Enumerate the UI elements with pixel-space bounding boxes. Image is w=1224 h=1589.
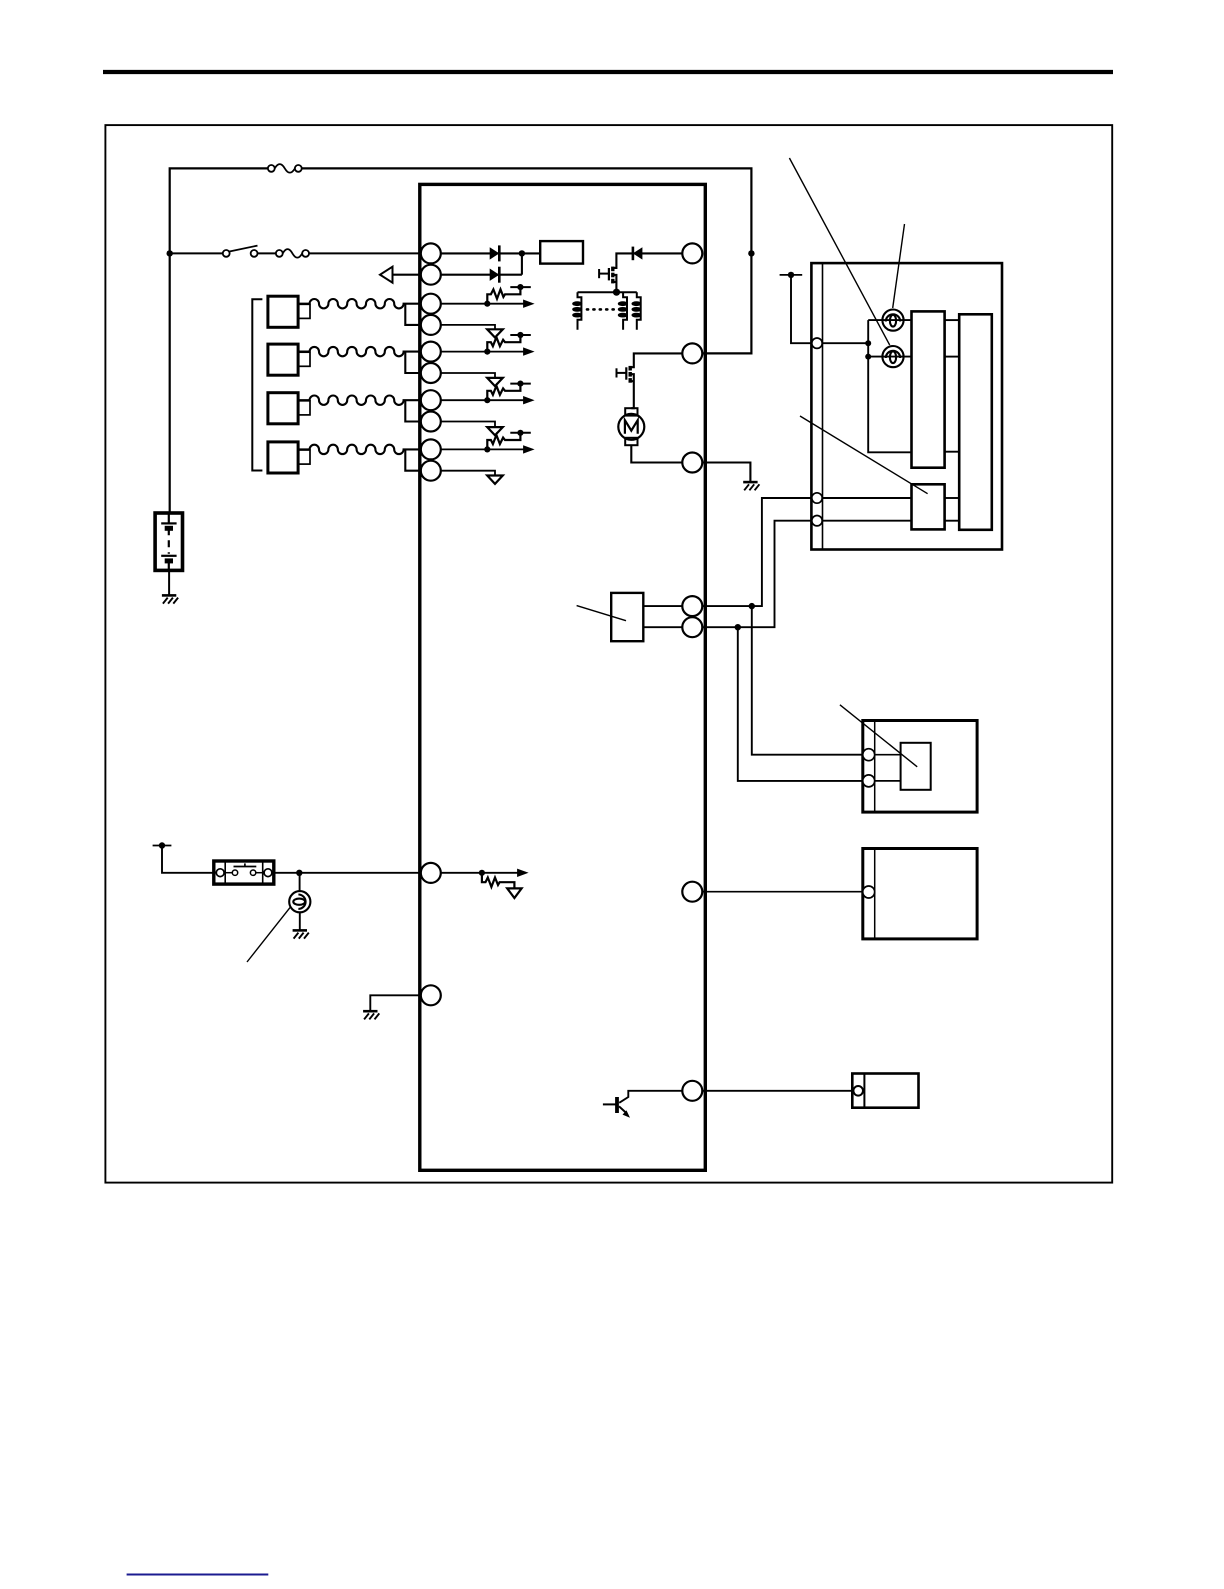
MOSFET Q2 bbox=[617, 366, 631, 383]
wire: to bulb 2 bbox=[868, 356, 911, 358]
leader: oil pressure switch bbox=[247, 907, 290, 962]
wire: switch to fuse F2 bbox=[258, 252, 276, 254]
wire: motor to return pin bbox=[631, 445, 682, 462]
ground: battery bbox=[162, 595, 178, 603]
ignition coil T2 bbox=[268, 344, 421, 375]
node: oil lamp tee bbox=[296, 870, 302, 876]
fuse F2 bbox=[276, 249, 309, 258]
resistor network: coil 1 input bbox=[441, 284, 535, 308]
transistor Q3 (open collector) bbox=[603, 1091, 682, 1118]
pin: ECM coil 3 return bbox=[421, 412, 441, 432]
wire: tee to oil pressure switch bbox=[299, 873, 301, 891]
pin: ECM ground pin bbox=[421, 985, 441, 1005]
node: bulb splits bbox=[865, 340, 871, 359]
wire: fuse F2 to ECM IG pin bbox=[309, 252, 421, 254]
ignition coil T3 bbox=[268, 393, 421, 424]
zener/resistor network: coil 4 input bbox=[441, 422, 535, 454]
wire: out2 pin to meter bbox=[702, 521, 812, 628]
wire: out1 pin to meter and speed sensor bbox=[702, 498, 812, 606]
leader: speed sensor bbox=[840, 705, 917, 767]
ECM box U1 bbox=[420, 184, 706, 1170]
ignition coil T4 bbox=[268, 442, 421, 473]
wire: return pin to ground bbox=[702, 463, 750, 482]
speed sensor element bbox=[875, 743, 931, 790]
ignition switch SW1 bbox=[223, 246, 258, 257]
wire: speed signal pin to module bbox=[702, 891, 863, 893]
power tap node (meter) bbox=[780, 272, 803, 278]
transformer L1 (noise filter) bbox=[573, 292, 641, 330]
pin: ECM tach output bbox=[421, 265, 441, 285]
pin: ECM sensor out 1 bbox=[682, 596, 702, 616]
pin: ECM fan/motor supply bbox=[682, 343, 702, 363]
diagram outer frame bbox=[105, 125, 1112, 1183]
pin: ECM coil 3 signal bbox=[421, 390, 441, 410]
speedometer module bbox=[912, 484, 945, 529]
footer link rule bbox=[127, 1574, 269, 1576]
ground: oil pressure switch bbox=[293, 930, 309, 938]
wire: battery to ground bbox=[168, 570, 170, 595]
leader: bulb callout 2 bbox=[893, 224, 905, 308]
battery BAT bbox=[155, 513, 182, 570]
arrow: tach output (left) bbox=[380, 267, 421, 283]
MOSFET Q1 bbox=[599, 267, 613, 284]
power tap node bbox=[153, 842, 172, 848]
pin: ECM coil 4 return bbox=[421, 461, 441, 481]
wire: tap to fusible link bbox=[162, 846, 214, 873]
wire: relay pin into FET bbox=[633, 252, 682, 254]
fuse F1 bbox=[268, 164, 302, 173]
pin: ECM coil 1 return bbox=[421, 315, 441, 335]
wire: meter power to bulbs bbox=[822, 342, 868, 344]
pin: ECM coil 1 signal bbox=[421, 294, 441, 314]
wire: IG pin to regulator bbox=[441, 252, 540, 254]
wire: to bulb 1 bbox=[868, 319, 911, 321]
leader: speedometer callout bbox=[800, 416, 928, 494]
pin: ECM coil 2 signal bbox=[421, 342, 441, 362]
wire: ECM ground pin bbox=[370, 995, 421, 1010]
meter circuit board bbox=[959, 314, 992, 530]
regulator box bbox=[540, 241, 583, 264]
pin: ECM speed signal bbox=[682, 882, 702, 902]
pin: meter power bbox=[812, 338, 822, 348]
wire: fusible link to ECM oil pin bbox=[274, 872, 421, 874]
node: transformer top bbox=[613, 289, 620, 296]
bulb 2 (warning lamp) bbox=[882, 346, 903, 367]
zener/resistor network: coil 2 input bbox=[441, 325, 535, 356]
node: diode OR junction bbox=[519, 250, 525, 256]
vehicle speed sensor box bbox=[863, 721, 977, 813]
page top rule bbox=[103, 70, 1113, 74]
ECU-less box (blank module) bbox=[863, 849, 977, 939]
ignition coil T1 bbox=[268, 296, 421, 327]
zener/resistor network: coil 3 input bbox=[441, 373, 535, 404]
wire: crank pin to sensor box bbox=[702, 1090, 852, 1092]
pin: ECM IG input bbox=[421, 243, 441, 263]
wires: meter pins to speedometer bbox=[822, 498, 959, 521]
crank sensor box bbox=[852, 1074, 918, 1108]
meter gauge module 1 bbox=[912, 311, 945, 467]
leader: bulb callout 1 bbox=[789, 158, 889, 345]
pin: ECM coil 4 signal bbox=[421, 439, 441, 459]
wires: gauge to board bbox=[945, 320, 960, 452]
diode D3 (points left) bbox=[633, 247, 643, 261]
zener: last coil return clamp bbox=[441, 471, 503, 484]
pin: ECM oil pressure input bbox=[421, 863, 441, 883]
fusible link FL1 bbox=[214, 861, 274, 884]
wire: fuse F1 to main relay vertical bbox=[302, 168, 752, 353]
wire: battery feed to fusible link (top horizontal) bbox=[170, 168, 272, 513]
leader: sensor unit bbox=[577, 606, 626, 621]
wire: out2 down to speed sensor bbox=[738, 627, 863, 781]
wire: diode to FET drain bbox=[613, 253, 633, 268]
combination meter box bbox=[811, 263, 1002, 549]
wire: FET source to transformer bbox=[613, 275, 617, 292]
pin: ECM coil 2 return bbox=[421, 363, 441, 383]
wire: sensor to out2 pin bbox=[643, 626, 682, 628]
wire: junction to ignition switch bbox=[170, 252, 223, 254]
resistor network: oil pressure input bbox=[441, 869, 529, 898]
oil pressure switch/lamp bbox=[289, 891, 310, 912]
bracket: ignition coil group bbox=[252, 299, 262, 470]
diode D1 bbox=[490, 247, 500, 259]
pin: ECM motor return bbox=[682, 453, 702, 473]
node: relay feed junction bbox=[748, 250, 754, 256]
wire/diode D2: backup row bbox=[441, 253, 522, 282]
pin: ECM main relay supply bbox=[682, 243, 702, 263]
motor M1 bbox=[618, 408, 644, 445]
wire: motor supply pin to FET Q2 bbox=[630, 353, 682, 367]
node: out1 tee bbox=[749, 603, 755, 609]
wire: FET Q2 to motor bbox=[630, 374, 634, 408]
wire: lamp to ground bbox=[299, 912, 301, 930]
pin: meter in2 bbox=[812, 516, 822, 526]
node: out2 tee bbox=[735, 624, 741, 630]
pin: ECM crank signal bbox=[682, 1081, 702, 1101]
ground: ECM case bbox=[363, 1011, 379, 1019]
sensor unit S1 bbox=[611, 593, 643, 641]
ground: motor return bbox=[743, 482, 759, 490]
bulb 1 (warning lamp) bbox=[882, 310, 903, 331]
pin: ECM sensor out 2 bbox=[682, 617, 702, 637]
wire: tap to meter pin bbox=[791, 275, 812, 343]
wire: bulb frame bbox=[868, 320, 911, 452]
wire: out1 down to speed sensor bbox=[752, 606, 863, 755]
node: battery junction bbox=[167, 250, 173, 256]
wire: sensor to out1 pin bbox=[643, 605, 682, 607]
pin: meter in1 bbox=[812, 493, 822, 503]
